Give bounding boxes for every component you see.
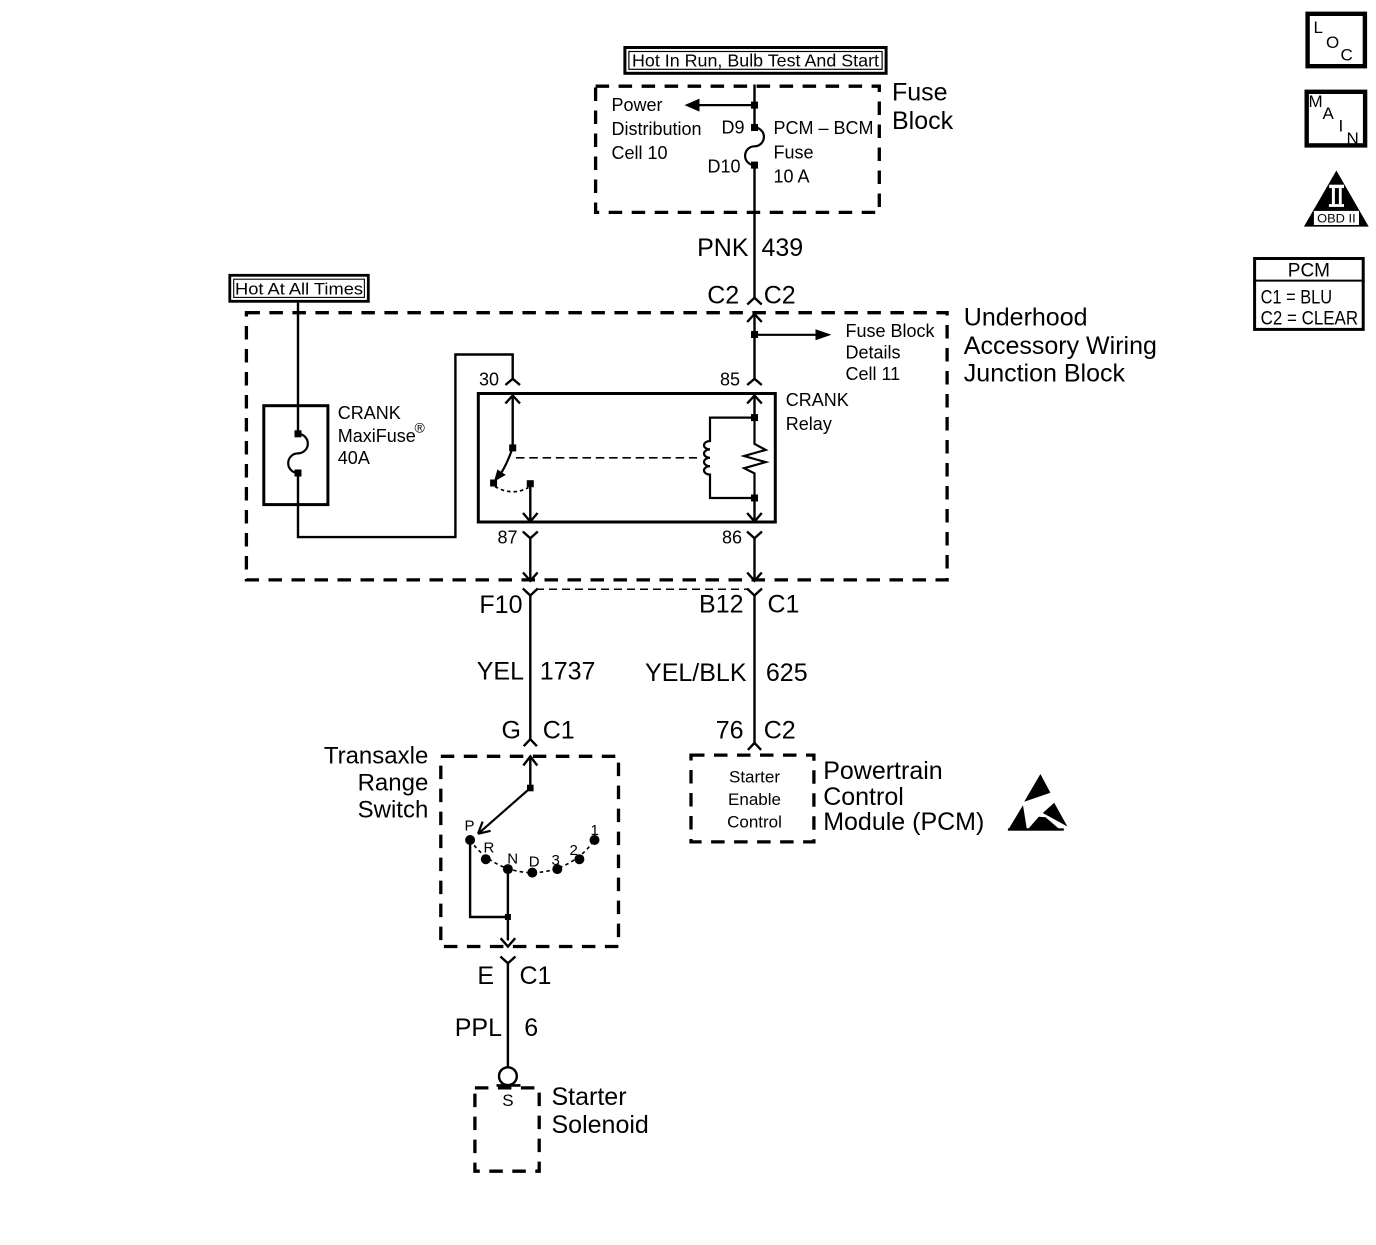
label Power Distribution Cell 10 — [612, 95, 702, 163]
contact 3 — [552, 852, 563, 874]
svg-text:Distribution: Distribution — [612, 119, 702, 139]
svg-text:C: C — [1341, 46, 1353, 65]
connector C2 / C2 — [707, 282, 795, 310]
label Fuse Block — [892, 79, 954, 136]
svg-text:Starter: Starter — [729, 768, 780, 787]
wire: P to junction — [470, 844, 508, 917]
dashed actuation link — [516, 457, 697, 459]
svg-text:PCM – BCM: PCM – BCM — [774, 118, 874, 138]
svg-text:YEL/BLK: YEL/BLK — [645, 659, 747, 687]
svg-text:I: I — [1339, 117, 1344, 136]
dashed connector tie line F10-B12 — [536, 588, 747, 590]
svg-text:A: A — [1323, 104, 1335, 123]
wire YEL/BLK 625 — [645, 596, 808, 743]
svg-text:Details: Details — [846, 342, 901, 362]
fuse PCM-BCM 10A — [745, 118, 873, 186]
svg-text:Solenoid: Solenoid — [552, 1111, 649, 1139]
svg-text:CRANK: CRANK — [786, 390, 849, 410]
banner: Hot At All Times — [230, 275, 368, 301]
fuse block dashed box — [596, 86, 880, 212]
svg-text:R: R — [484, 840, 495, 857]
contact D — [527, 854, 540, 878]
switch arm transaxle — [478, 788, 530, 834]
ESD symbol — [1008, 774, 1068, 831]
connector 76 C2 — [716, 717, 796, 750]
svg-text:Fuse: Fuse — [774, 142, 814, 162]
svg-text:Range: Range — [358, 770, 429, 797]
pin 87 connector — [497, 528, 537, 548]
label CRANK MaxiFuse 40A — [338, 403, 426, 468]
legend OBD II triangle — [1304, 171, 1369, 227]
svg-text:N: N — [507, 851, 518, 868]
node: junction in fuse block — [751, 102, 758, 109]
contact N — [503, 851, 518, 875]
contact 2 — [570, 842, 585, 864]
underhood junction block dashed box — [246, 313, 947, 580]
wire: arrow into junction block — [747, 314, 762, 379]
wire: MaxiFuse to relay pin 30 — [298, 355, 513, 538]
wire: relay pin85 entry arrow — [747, 396, 762, 418]
svg-text:439: 439 — [762, 234, 804, 262]
connector E C1 — [477, 957, 551, 991]
svg-text:Module (PCM): Module (PCM) — [823, 808, 984, 836]
pin D9 — [721, 118, 758, 138]
svg-text:1: 1 — [591, 822, 599, 839]
svg-text:C2: C2 — [764, 282, 796, 310]
svg-text:1737: 1737 — [540, 658, 596, 686]
node: relay contact 87a — [490, 480, 497, 487]
node: transaxle junction — [505, 914, 511, 920]
pin 30 connector — [479, 370, 520, 390]
wire: arrow to Power Distribution — [685, 99, 755, 112]
svg-text:PPL: PPL — [455, 1014, 502, 1042]
dashed contact arc — [495, 487, 529, 492]
svg-text:Accessory Wiring: Accessory Wiring — [964, 332, 1157, 360]
svg-text:C1: C1 — [768, 591, 800, 619]
svg-text:6: 6 — [524, 1014, 538, 1042]
wire: 87 to junction block edge arrow — [523, 544, 538, 581]
wire: contact 87 down with arrow — [523, 484, 538, 522]
label PNK 439 — [697, 234, 803, 262]
svg-text:C2: C2 — [707, 282, 739, 310]
svg-text:Cell 11: Cell 11 — [846, 364, 901, 384]
contact 1 — [590, 822, 600, 845]
transaxle range switch dashed box — [441, 756, 619, 946]
svg-text:OBD II: OBD II — [1317, 211, 1356, 225]
svg-text:Fuse Block: Fuse Block — [846, 321, 936, 341]
connector F10 — [479, 589, 537, 620]
node: switch pivot — [527, 785, 534, 792]
wire PPL 6 — [455, 963, 538, 1067]
label Starter Solenoid — [552, 1083, 649, 1139]
svg-text:Enable: Enable — [728, 790, 781, 809]
fuse element MaxiFuse — [288, 430, 308, 476]
node: relay coil top — [751, 414, 758, 421]
label Powertrain Control Module (PCM) — [823, 757, 984, 836]
wire: entry arrow into transaxle switch — [523, 757, 537, 789]
legend PCM connector box — [1253, 259, 1365, 330]
svg-text:87: 87 — [497, 528, 517, 548]
svg-text:76: 76 — [716, 717, 744, 745]
svg-text:C1: C1 — [520, 962, 552, 990]
svg-text:B12: B12 — [699, 591, 743, 619]
PCM starter enable dashed box — [691, 755, 814, 842]
wire: arrow to Fuse Block Details — [755, 329, 832, 340]
node: relay common pivot — [509, 444, 516, 451]
svg-text:3: 3 — [552, 852, 560, 869]
contact P — [465, 818, 476, 846]
svg-text:30: 30 — [479, 370, 499, 390]
svg-text:D: D — [529, 854, 540, 871]
wire: 86 to junction block edge arrow — [747, 544, 762, 581]
svg-text:Cell 10: Cell 10 — [612, 143, 668, 163]
svg-text:YEL: YEL — [477, 658, 524, 686]
legend MAIN box — [1307, 92, 1365, 148]
banner: Hot In Run, Bulb Test And Start — [625, 48, 886, 74]
wire: relay pin30 entry arrow — [505, 396, 520, 448]
svg-text:625: 625 — [766, 659, 808, 687]
svg-text:O: O — [1326, 33, 1339, 52]
pin D10 — [707, 157, 758, 177]
svg-text:Underhood: Underhood — [964, 304, 1088, 332]
svg-text:Control: Control — [727, 812, 782, 831]
svg-text:10 A: 10 A — [774, 166, 810, 186]
svg-text:E: E — [477, 962, 494, 990]
svg-text:C1 = BLU: C1 = BLU — [1261, 288, 1333, 309]
svg-text:Power: Power — [612, 95, 663, 115]
dashed position arc — [470, 840, 594, 873]
svg-text:N: N — [1347, 129, 1359, 148]
svg-text:86: 86 — [722, 528, 742, 548]
svg-text:C2 = CLEAR: C2 = CLEAR — [1261, 308, 1359, 329]
connector B12 C1 — [699, 589, 799, 619]
CRANK MaxiFuse box — [264, 406, 328, 505]
svg-text:Hot In Run, Bulb Test And Star: Hot In Run, Bulb Test And Start — [632, 51, 879, 71]
node: junction below C2 — [751, 331, 758, 338]
svg-text:Control: Control — [823, 783, 904, 811]
label Underhood Accessory Wiring Junction Block — [964, 304, 1157, 388]
svg-text:C1: C1 — [543, 717, 575, 745]
svg-text:PCM: PCM — [1288, 261, 1330, 282]
svg-text:Transaxle: Transaxle — [324, 743, 428, 770]
resistor in relay — [744, 418, 766, 498]
pin 86 connector — [722, 528, 762, 548]
svg-text:Switch: Switch — [358, 797, 429, 824]
label CRANK Relay — [786, 390, 849, 434]
wire: D10 down to C2 — [753, 165, 755, 298]
ring terminal S — [497, 1067, 521, 1110]
svg-text:Starter: Starter — [552, 1083, 627, 1111]
svg-text:Junction Block: Junction Block — [964, 360, 1126, 388]
connector G C1 — [502, 717, 575, 747]
svg-text:Hot At All Times: Hot At All Times — [235, 280, 363, 299]
svg-text:C2: C2 — [764, 717, 796, 745]
svg-text:D9: D9 — [721, 118, 744, 138]
legend LOC box — [1308, 14, 1365, 66]
node: relay contact 87 — [527, 480, 534, 487]
svg-text:Block: Block — [892, 107, 954, 135]
label Starter Enable Control — [727, 768, 782, 832]
pin 85 connector — [720, 370, 762, 390]
svg-text:M: M — [1309, 92, 1323, 111]
contact R — [481, 840, 495, 865]
svg-text:P: P — [465, 818, 475, 835]
switch arm relay — [494, 448, 513, 482]
starter solenoid dashed box — [475, 1088, 539, 1171]
svg-text:Relay: Relay — [786, 414, 832, 434]
wire: banner to D9 — [753, 85, 755, 128]
svg-text:MaxiFuse: MaxiFuse — [338, 426, 416, 446]
svg-text:S: S — [502, 1091, 513, 1110]
wire: N down to exit — [507, 873, 509, 941]
svg-text:L: L — [1314, 18, 1323, 37]
CRANK relay box — [478, 394, 775, 523]
svg-text:40A: 40A — [338, 448, 370, 468]
node: relay coil bottom — [751, 495, 758, 502]
svg-text:G: G — [502, 717, 521, 745]
svg-text:F10: F10 — [479, 591, 522, 619]
svg-text:CRANK: CRANK — [338, 403, 401, 423]
svg-text:PNK: PNK — [697, 234, 749, 262]
svg-text:D10: D10 — [707, 157, 740, 177]
wire: coil bottom down with arrow — [747, 498, 762, 522]
svg-text:Fuse: Fuse — [892, 79, 948, 107]
label Fuse Block Details Cell 11 — [846, 321, 936, 384]
svg-text:Powertrain: Powertrain — [823, 757, 943, 785]
svg-text:®: ® — [415, 420, 426, 436]
svg-text:2: 2 — [570, 842, 578, 859]
relay coil — [704, 418, 755, 498]
wire: exit arrow from transaxle — [501, 938, 516, 946]
wire: Hot At All Times down to MaxiFuse — [297, 303, 299, 434]
label Transaxle Range Switch — [324, 743, 428, 824]
svg-text:85: 85 — [720, 370, 740, 390]
wire YEL 1737 — [477, 596, 596, 740]
